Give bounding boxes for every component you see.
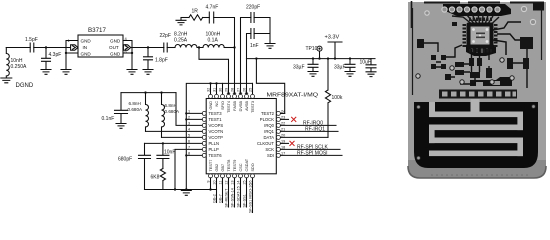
ground bus left of IC <box>186 83 252 190</box>
wire 1nF left column pin26 <box>247 34 251 59</box>
wire pin31 stub <box>216 83 218 94</box>
wire C6 to right vertical <box>254 17 270 19</box>
ground below C10 <box>366 72 376 77</box>
svg-text:0.25A: 0.25A <box>174 38 188 44</box>
node rail to pin24 link <box>255 57 257 59</box>
wire RF input to C1 <box>6 47 30 49</box>
wire VCO rail to pin3 VCOPS <box>176 93 202 126</box>
svg-text:22: 22 <box>281 121 285 125</box>
PCB photo of MRF89XA module <box>408 1 546 178</box>
svg-text:SF-SDAT-15: SF-SDAT-15 <box>237 186 241 207</box>
PCB via top right pair <box>521 6 526 11</box>
svg-text:GB7: GB7 <box>221 164 225 172</box>
wire pin12 net SF-RESET <box>228 178 230 207</box>
PCB meander right connector 2 <box>517 138 523 157</box>
capacitor C5 4.7nF <box>209 12 213 23</box>
svg-text:23: 23 <box>281 115 285 119</box>
svg-text:DGND: DGND <box>16 83 34 89</box>
pin numbers MRF89XA left <box>188 109 190 155</box>
wire pin21 IRQ1 net RF-IRQ1 <box>281 130 338 132</box>
svg-text:B3717: B3717 <box>88 27 106 34</box>
net labels bottom rotated <box>213 183 253 213</box>
svg-text:GND: GND <box>81 52 92 57</box>
svg-text:0.1nF: 0.1nF <box>102 116 115 122</box>
svg-text:9: 9 <box>207 181 211 183</box>
wire R1 to C5 <box>203 17 210 19</box>
PCB board base copper pour <box>408 2 546 178</box>
svg-text:0.680A: 0.680A <box>128 107 143 112</box>
pin bubbles right pins 24-17 <box>276 111 280 115</box>
port marker pin 1 IN <box>71 45 78 50</box>
PCB meander left connector <box>429 125 435 144</box>
svg-text:1R: 1R <box>192 9 199 15</box>
wire pin9 down to bottom wire <box>210 178 212 190</box>
node pin9 bottom wire <box>209 188 211 190</box>
node 33uF second <box>349 57 351 59</box>
node pin7 bottom wire <box>174 188 176 190</box>
capacitor C9 33uF <box>345 59 355 72</box>
svg-text:0.1A: 0.1A <box>208 38 219 44</box>
node 3.3V stem <box>334 57 336 59</box>
PCB dark band lower middle <box>470 77 512 86</box>
svg-text:GND: GND <box>209 101 213 110</box>
svg-text:RF-IRQ1: RF-IRQ1 <box>305 127 325 133</box>
ground below C8 <box>308 72 318 77</box>
wire pin30 stub <box>222 83 224 94</box>
svg-text:SF-SS1: SF-SS1 <box>243 194 247 207</box>
node B3717 left gnd <box>65 52 67 54</box>
svg-text:10nF: 10nF <box>164 150 175 156</box>
node B3717 right gnd <box>131 52 133 54</box>
svg-text:CSC: CSC <box>239 163 243 171</box>
wire 3.3V rail <box>247 58 376 60</box>
svg-text:22pF: 22pF <box>160 33 171 39</box>
inductor L4 6.8nH 0.680A <box>146 93 149 132</box>
svg-text:RF-SPI MOSI: RF-SPI MOSI <box>297 151 328 157</box>
wire B3717 right GND pins <box>123 41 132 70</box>
wire pin17 SDI net RF-SPI MOSI <box>281 154 342 156</box>
node L3 VDD column <box>233 46 235 48</box>
PCB meander antenna bar 2 <box>429 125 523 131</box>
wire C4 to L2 <box>167 47 175 49</box>
node between L2 and L3 <box>198 46 200 48</box>
wire C7 to right vertical <box>254 18 270 44</box>
inductor L3 100nH 0.1A <box>203 44 224 47</box>
PCB left edge trace <box>413 8 542 95</box>
svg-text:13: 13 <box>231 181 235 185</box>
PCB meander antenna bar 4 <box>429 151 523 157</box>
svg-text:SDI: SDI <box>267 153 274 158</box>
svg-text:SF-SSN-14: SF-SSN-14 <box>231 188 235 207</box>
svg-text:TEST2: TEST2 <box>261 111 275 116</box>
svg-text:TEST7: TEST7 <box>209 160 213 172</box>
wire loop filter bottom <box>145 189 217 191</box>
svg-text:TEST3: TEST3 <box>251 101 255 113</box>
capacitor C11 0.1nF <box>115 93 128 124</box>
node 100k on rail <box>327 57 329 59</box>
resistor R3 6K8 <box>160 169 165 190</box>
node bus pin31 <box>215 82 217 84</box>
svg-text:IRQ1: IRQ1 <box>264 129 274 134</box>
ground below C11 <box>116 124 126 129</box>
wire pin8 TEST6 to gnd bus <box>186 154 202 156</box>
svg-text:24: 24 <box>281 109 285 113</box>
wire pin26 column below rail <box>246 59 248 95</box>
wire pin18 SCK net RF-SPI SCLK <box>281 148 340 150</box>
pin bubbles top pins 32-25 <box>209 94 213 98</box>
svg-text:SFIO: SFIO <box>221 101 225 110</box>
svg-text:IRQ0: IRQ0 <box>264 123 274 128</box>
capacitor C7 1nF <box>251 29 254 39</box>
pin bubbles left pins 1-8 <box>202 111 206 115</box>
ground right of C6 C7 <box>265 44 275 49</box>
svg-text:32: 32 <box>206 88 210 92</box>
pin names MRF89XA top rotated <box>209 101 255 113</box>
svg-text:31: 31 <box>212 88 216 92</box>
svg-text:CSDAT: CSDAT <box>245 158 249 171</box>
PCB via in antenna area top-left <box>417 105 420 108</box>
wire pin2 to gnd bus <box>186 118 202 120</box>
wire gnd to R1 <box>181 17 189 19</box>
svg-text:0.680A: 0.680A <box>165 109 180 114</box>
op-amp U2 B3717 SAW filter body <box>78 35 123 57</box>
capacitor C8 33uF <box>308 59 318 72</box>
node TP10 on rail <box>318 57 320 59</box>
svg-text:DVSB: DVSB <box>239 101 243 112</box>
capacitor C12 680pF <box>139 143 151 189</box>
capacitor C6 220pF <box>251 13 254 23</box>
PCB via row top <box>425 6 536 24</box>
svg-text:AVSB: AVSB <box>245 101 249 111</box>
wire pin7 PLLP down to bottom <box>175 149 202 189</box>
PCB traces right <box>497 34 527 88</box>
PCB meander antenna bar 1 <box>429 112 523 118</box>
svg-text:4: 4 <box>188 127 190 131</box>
PCB antenna left stub <box>429 102 435 114</box>
node pin1 gnd bus <box>185 112 187 114</box>
svg-text:0.250A: 0.250A <box>11 64 28 70</box>
node bus pin32 <box>209 82 211 84</box>
svg-text:OUT: OUT <box>109 45 119 50</box>
wire pin16 net SF-MISO <box>252 178 254 213</box>
ground top-left of 1R <box>176 18 186 25</box>
svg-text:33µF: 33µF <box>293 65 305 71</box>
ground below B3717 left <box>61 70 71 75</box>
svg-text:20: 20 <box>281 133 285 137</box>
no-connect X on CLKOUT <box>290 141 295 146</box>
svg-text:3: 3 <box>188 121 190 125</box>
svg-text:100k: 100k <box>332 95 343 101</box>
ground below C3 <box>143 70 153 75</box>
node loop filter 10nF branch <box>162 142 164 144</box>
capacitor C1 1.5pF <box>30 43 34 52</box>
PCB dark pour above QFN <box>443 4 511 16</box>
svg-text:SCK: SCK <box>265 147 274 152</box>
wire OUT to C4 <box>131 47 164 49</box>
svg-text:TP10: TP10 <box>306 46 318 52</box>
capacitor C10 10uF <box>366 59 376 72</box>
capacitor C3 1.8pF <box>144 48 153 70</box>
svg-text:GND: GND <box>81 39 92 44</box>
capacitor C13 10nF <box>157 143 169 168</box>
pin numbers MRF89XA bottom rotated <box>207 181 253 185</box>
wire B3717 left GND pins <box>66 41 78 70</box>
svg-text:VCOTN: VCOTN <box>209 129 224 134</box>
svg-text:MRF89XAT-I/MQ: MRF89XAT-I/MQ <box>267 93 319 99</box>
svg-text:+3.3V: +3.3V <box>325 35 340 41</box>
svg-text:DATA: DATA <box>263 135 274 140</box>
node gnd bus bottom wire <box>185 188 187 190</box>
svg-text:33µF: 33µF <box>334 65 346 71</box>
inductor L2 8.2nH 0.25A <box>175 45 197 48</box>
PCB right side pads <box>507 37 533 69</box>
svg-text:TEST9: TEST9 <box>233 160 237 172</box>
wire pin32 stub <box>210 83 212 94</box>
PCB traces QFN to via row <box>452 14 499 24</box>
svg-text:SF-SS1 MISO-16: SF-SS1 MISO-16 <box>249 183 253 213</box>
svg-text:TEST8: TEST8 <box>227 160 231 172</box>
ground at bottom of bus <box>181 191 191 196</box>
pin numbers MRF89XA right <box>281 109 285 155</box>
svg-text:6K8: 6K8 <box>151 175 160 181</box>
svg-text:8: 8 <box>188 151 190 155</box>
wire L4 to pin4 VCOTN <box>146 130 203 132</box>
wire pin10 net GB-2 <box>216 178 218 203</box>
wire C1 to B3717 <box>34 47 71 49</box>
svg-text:6.8nH: 6.8nH <box>165 103 177 108</box>
svg-text:29: 29 <box>224 88 228 92</box>
PCB left edge top dark mark <box>411 1 413 28</box>
wire pin19 stub CLKOUT <box>281 142 289 144</box>
PCB stitching vias bottom strip <box>431 174 528 176</box>
svg-text:6.8nH: 6.8nH <box>129 101 141 106</box>
svg-text:1: 1 <box>188 109 190 113</box>
svg-text:GND: GND <box>110 39 121 44</box>
svg-text:PLOCK: PLOCK <box>260 117 274 122</box>
wire pin15 net SF-SS1 <box>246 178 248 207</box>
PCB via left <box>425 11 429 15</box>
resistor R1 1R <box>189 15 203 21</box>
port marker pin 5 OUT <box>123 45 130 50</box>
svg-text:11: 11 <box>219 181 223 185</box>
QFN pads around <box>463 18 498 53</box>
svg-text:10uF: 10uF <box>360 60 371 66</box>
ground DGND <box>1 78 12 83</box>
svg-text:220pF: 220pF <box>246 5 260 11</box>
node at C3 <box>147 46 149 48</box>
PCB center cluster pads below QFN <box>445 58 492 80</box>
node VCO rail L4 <box>144 91 146 93</box>
PCB meander antenna bar 3 <box>429 138 523 144</box>
no-connect X on PLOCK <box>290 117 297 146</box>
svg-text:VCOPS: VCOPS <box>209 123 224 128</box>
wire pin25 stub <box>252 83 254 94</box>
svg-text:SF-RESET: SF-RESET <box>225 188 229 207</box>
svg-text:IN: IN <box>83 45 88 50</box>
pin names MRF89XA bottom rotated <box>209 158 255 171</box>
wire rail down to pin24 TEST2 <box>256 59 284 114</box>
svg-text:19: 19 <box>281 139 285 143</box>
svg-text:10: 10 <box>213 181 217 185</box>
svg-text:1nF: 1nF <box>250 43 259 49</box>
inductor L5 6.8nH 0.680A <box>162 93 165 138</box>
svg-text:SDO: SDO <box>251 163 255 171</box>
wire pin23 stub PLOCK <box>281 118 289 120</box>
svg-text:CLKOUT: CLKOUT <box>257 141 274 146</box>
wire loop filter top to pin6 PLLN <box>145 142 203 144</box>
node pin2 gnd bus <box>185 118 187 120</box>
PCB dark pour below QFN <box>466 45 496 56</box>
ground below B3717 right <box>127 70 137 75</box>
svg-text:PLLP: PLLP <box>209 147 219 152</box>
node after C1 <box>45 46 47 48</box>
power flag triangles on top pins <box>227 91 249 94</box>
svg-text:6: 6 <box>188 139 190 143</box>
svg-text:PLLN: PLLN <box>209 141 219 146</box>
svg-text:TEST1: TEST1 <box>209 117 223 122</box>
svg-text:TEST6: TEST6 <box>209 153 223 158</box>
PCB bottom connector pad row <box>439 90 517 99</box>
capacitor C2 4.3pF <box>42 48 51 70</box>
wire L3 to VDD column <box>224 47 234 49</box>
svg-text:GB-2: GB-2 <box>213 194 217 203</box>
node VCO rail L5 <box>160 91 162 93</box>
wire C5 to pin28 column <box>214 18 235 95</box>
PCB trace QFN right to pad <box>493 22 521 55</box>
svg-text:TEST4: TEST4 <box>227 101 231 113</box>
svg-text:VCOTP: VCOTP <box>209 135 224 140</box>
svg-text:17: 17 <box>281 151 285 155</box>
svg-text:18: 18 <box>281 145 285 149</box>
PCB top right dark patch <box>533 3 544 11</box>
PCB left side component pads <box>417 22 457 69</box>
PCB via in antenna area top-right <box>532 105 535 108</box>
PCB top edge dark marks <box>424 2 544 4</box>
wire pin24 stub <box>281 112 285 114</box>
PCB meander right connector 1 <box>517 112 523 131</box>
wire pin13 net SF-SSN <box>234 178 236 207</box>
svg-text:GB-7: GB-7 <box>219 194 223 203</box>
pin numbers MRF89XA top rotated <box>206 88 252 92</box>
pin names MRF89XA right <box>257 111 275 158</box>
wire L5 to pin5 VCOTP <box>162 136 203 138</box>
QFN IC footprint U1 <box>463 18 498 53</box>
svg-text:1.5pF: 1.5pF <box>25 37 38 43</box>
resistor R2 100k <box>325 59 330 138</box>
capacitor C4 22pF <box>164 43 167 52</box>
svg-text:2: 2 <box>188 115 190 119</box>
PCB traces left <box>424 43 462 67</box>
power +3.3V <box>328 42 342 59</box>
PCB gray trace gaps below QFN <box>472 46 487 53</box>
wire pin22 IRQ0 net RF-IRQ0 <box>281 124 336 126</box>
PCB antenna cavity black <box>414 102 538 168</box>
PCB antenna feed stub <box>471 99 480 113</box>
svg-text:26: 26 <box>242 88 246 92</box>
svg-text:14: 14 <box>237 181 241 185</box>
svg-text:28: 28 <box>230 88 234 92</box>
wire pin1 to gnd bus <box>186 112 202 114</box>
svg-text:FASB: FASB <box>233 101 237 111</box>
svg-text:21: 21 <box>281 127 285 131</box>
wire pin11 net GB-7 <box>222 178 224 203</box>
svg-text:7: 7 <box>188 145 190 149</box>
node pin8 gnd bus <box>185 154 187 156</box>
IC U1 MRF89XAT body <box>206 99 276 174</box>
wire VCO top rail <box>121 92 176 94</box>
PCB gray islands in dark band <box>476 82 483 86</box>
svg-text:30: 30 <box>218 88 222 92</box>
svg-text:680pF: 680pF <box>118 157 132 163</box>
svg-text:5: 5 <box>188 133 190 137</box>
PCB traces center cluster <box>451 49 489 84</box>
PCB via in antenna area bottom-left <box>417 156 420 159</box>
svg-text:1.8pF: 1.8pF <box>155 58 168 64</box>
svg-text:NC: NC <box>215 101 219 107</box>
svg-text:4.3pF: 4.3pF <box>49 52 62 58</box>
ground below C9 <box>345 72 355 77</box>
ground below C2 <box>41 70 51 75</box>
PCB bottom edge strip <box>408 160 546 178</box>
pin bubbles bottom pins 9-16 <box>209 174 213 178</box>
svg-text:4.7nF: 4.7nF <box>206 5 219 11</box>
wire matching node down to pin 29 <box>197 48 229 95</box>
wire pin20 DATA to 100k <box>281 136 328 138</box>
svg-text:25: 25 <box>248 88 252 92</box>
svg-text:15: 15 <box>243 181 247 185</box>
svg-text:27: 27 <box>236 88 240 92</box>
svg-text:12: 12 <box>225 181 229 185</box>
inductor L1 10nH 0.250A <box>6 48 9 79</box>
wire 220pF left column pin27 <box>241 18 251 95</box>
node 33uF first <box>312 57 314 59</box>
PCB vias center <box>416 58 514 84</box>
test point TP10 <box>319 51 321 58</box>
svg-text:GB2: GB2 <box>215 164 219 172</box>
svg-text:GND: GND <box>110 52 121 57</box>
wire pin14 net SF-SDAT <box>240 178 242 207</box>
svg-text:TEST3: TEST3 <box>209 111 223 116</box>
